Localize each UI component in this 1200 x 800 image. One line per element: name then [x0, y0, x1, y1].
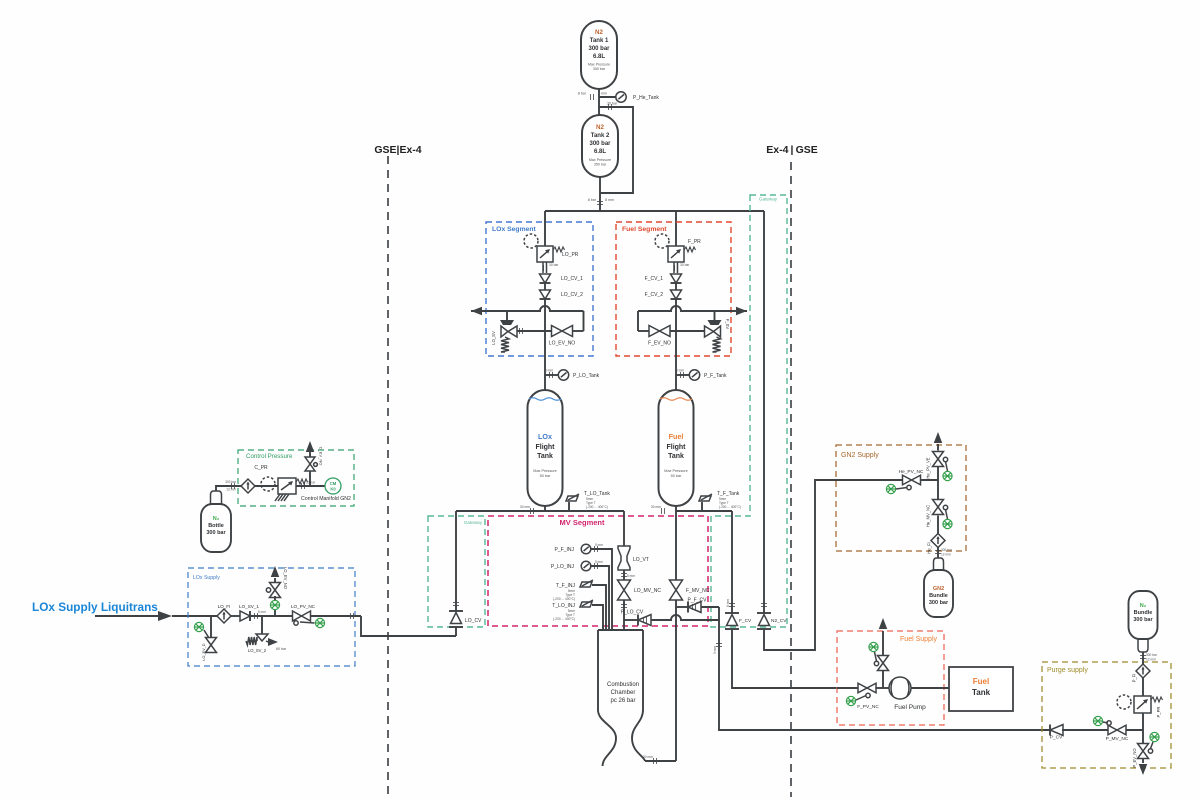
svg-text:N2: N2 — [596, 124, 604, 131]
svg-text:Fuel Supply: Fuel Supply — [900, 636, 937, 643]
svg-text:F_PV_NC: F_PV_NC — [857, 704, 879, 710]
svg-text:Tank: Tank — [668, 453, 684, 460]
svg-text:LO_SV_1: LO_SV_1 — [239, 604, 259, 609]
svg-text:50 bar: 50 bar — [540, 474, 552, 478]
svg-text:350 bar: 350 bar — [594, 163, 607, 167]
svg-text:C_PR: C_PR — [254, 465, 268, 471]
svg-text:LO_PV_NC: LO_PV_NC — [291, 604, 316, 609]
svg-text:LO_EV_D: LO_EV_D — [202, 643, 206, 660]
svg-text:LO_FI: LO_FI — [218, 604, 231, 609]
svg-text:He_FI: He_FI — [927, 542, 932, 553]
svg-text:8 bar: 8 bar — [588, 198, 597, 202]
svg-text:P_EV_NO: P_EV_NO — [1132, 748, 1137, 768]
svg-text:30 bar: 30 bar — [549, 263, 559, 267]
svg-text:LO_SV_2: LO_SV_2 — [248, 648, 267, 653]
svg-text:30 mm: 30 mm — [651, 505, 661, 509]
svg-text:Fuel Segment: Fuel Segment — [622, 226, 667, 233]
svg-text:30 bar: 30 bar — [607, 102, 618, 106]
svg-text:C_EV_NO: C_EV_NO — [319, 447, 324, 466]
svg-text:CM: CM — [330, 481, 337, 486]
svg-text:Tank 1: Tank 1 — [590, 38, 609, 44]
svg-text:He_MV_NC: He_MV_NC — [926, 505, 931, 527]
svg-text:P_FI: P_FI — [1132, 674, 1137, 683]
svg-text:Max Pressure: Max Pressure — [588, 63, 610, 67]
svg-text:LO_SV: LO_SV — [491, 331, 496, 345]
svg-text:50 bar: 50 bar — [671, 474, 683, 478]
svg-text:LOx Supply: LOx Supply — [193, 575, 220, 581]
svg-text:60 bar: 60 bar — [276, 647, 287, 651]
svg-text:LO_EV_NO: LO_EV_NO — [283, 567, 288, 590]
svg-text:N₂: N₂ — [1140, 603, 1147, 609]
svg-text:Purge supply: Purge supply — [1047, 667, 1088, 674]
svg-text:P_LO_Tank: P_LO_Tank — [573, 373, 600, 379]
svg-text:30 bar: 30 bar — [306, 481, 316, 485]
svg-text:Control Pressure: Control Pressure — [246, 453, 293, 460]
svg-text:(-200 ... 400°C): (-200 ... 400°C) — [553, 597, 575, 601]
svg-text:F_EV_NO: F_EV_NO — [648, 341, 671, 347]
svg-text:6.8L: 6.8L — [593, 54, 605, 60]
svg-text:MV Segment: MV Segment — [559, 518, 605, 527]
svg-text:Control Manifold GN2: Control Manifold GN2 — [301, 496, 351, 502]
svg-text:Chamber: Chamber — [611, 690, 636, 696]
svg-text:6 mm: 6 mm — [726, 599, 730, 607]
svg-text:(-200 ... 400°C): (-200 ... 400°C) — [586, 505, 608, 509]
svg-text:GN2 Supply: GN2 Supply — [841, 452, 879, 459]
svg-text:P_CV: P_CV — [1050, 735, 1063, 741]
svg-text:LOx Segment: LOx Segment — [492, 226, 537, 233]
svg-text:Combustion: Combustion — [607, 682, 639, 688]
svg-text:12 mm: 12 mm — [226, 488, 236, 492]
svg-text:P_LO_CV: P_LO_CV — [621, 610, 644, 616]
svg-text:8 mm: 8 mm — [676, 369, 684, 373]
svg-text:Fuel Pump: Fuel Pump — [894, 704, 926, 711]
svg-text:12 mm: 12 mm — [941, 553, 951, 557]
svg-text:Max Pressure: Max Pressure — [589, 158, 611, 162]
svg-text:K0: K0 — [330, 487, 336, 492]
svg-text:LOx: LOx — [538, 432, 552, 441]
svg-text:p​c 26 bar: p​c 26 bar — [610, 698, 635, 704]
svg-text:P_He_Tank: P_He_Tank — [633, 95, 659, 101]
svg-text:GSE|Ex-4: GSE|Ex-4 — [374, 144, 421, 156]
svg-text:P_F_Tank: P_F_Tank — [704, 373, 727, 379]
svg-text:300 bar: 300 bar — [1133, 617, 1153, 623]
svg-text:Fuel: Fuel — [973, 677, 989, 686]
svg-text:6.8L: 6.8L — [594, 149, 606, 155]
svg-text:Fuel: Fuel — [669, 432, 684, 441]
svg-text:5 mm: 5 mm — [627, 574, 635, 578]
svg-text:LO_CV_2: LO_CV_2 — [561, 292, 583, 298]
svg-text:P_PR: P_PR — [1156, 707, 1161, 718]
svg-text:(-200 ... 400°C): (-200 ... 400°C) — [719, 505, 741, 509]
svg-text:5 mm: 5 mm — [595, 543, 603, 547]
svg-text:LO_PR: LO_PR — [562, 252, 579, 258]
svg-text:Gateway: Gateway — [464, 520, 483, 525]
svg-text:8 mm: 8 mm — [605, 198, 614, 202]
svg-text:300 bar: 300 bar — [929, 600, 949, 606]
svg-text:P_F_INJ: P_F_INJ — [555, 547, 575, 553]
svg-text:Gateway: Gateway — [759, 197, 778, 202]
svg-text:Tank: Tank — [972, 688, 991, 697]
svg-text:Bundle: Bundle — [1134, 610, 1153, 616]
svg-text:Max Pressure: Max Pressure — [533, 469, 556, 473]
svg-text:He_PV_NC: He_PV_NC — [899, 469, 924, 475]
svg-text:LO_MV_NC: LO_MV_NC — [634, 588, 661, 594]
svg-text:300 bar: 300 bar — [588, 46, 610, 52]
svg-text:N2: N2 — [595, 29, 603, 36]
svg-text:350 bar: 350 bar — [593, 67, 606, 71]
svg-text:30 bar: 30 bar — [680, 263, 690, 267]
svg-text:He_PV_VE: He_PV_VE — [926, 457, 931, 478]
svg-text:N2_CV: N2_CV — [771, 618, 787, 624]
svg-text:5 mm: 5 mm — [258, 610, 266, 614]
svg-text:Tank: Tank — [537, 453, 553, 460]
svg-text:8 mm: 8 mm — [545, 369, 553, 373]
svg-text:F_CV: F_CV — [739, 618, 752, 624]
svg-text:12 mm: 12 mm — [1146, 658, 1156, 662]
svg-text:300 bar: 300 bar — [589, 141, 611, 147]
svg-text:3 mm: 3 mm — [713, 646, 717, 654]
svg-text:F_CV_2: F_CV_2 — [645, 292, 664, 298]
svg-text:Max Pressure: Max Pressure — [664, 469, 687, 473]
svg-text:5 mm: 5 mm — [595, 560, 603, 564]
svg-text:Bottle: Bottle — [208, 523, 224, 529]
svg-text:P_LO_INJ: P_LO_INJ — [551, 564, 575, 570]
svg-text:Bundle: Bundle — [929, 593, 948, 599]
svg-text:(-200 ... 400°C): (-200 ... 400°C) — [553, 617, 575, 621]
svg-text:300 bar: 300 bar — [941, 548, 953, 552]
svg-text:Tank 2: Tank 2 — [591, 133, 610, 139]
svg-text:LO_CV_1: LO_CV_1 — [561, 276, 583, 282]
svg-text:300 bar: 300 bar — [225, 480, 237, 484]
svg-text:Flight: Flight — [535, 444, 555, 451]
svg-text:8 mm: 8 mm — [598, 92, 607, 96]
svg-text:F_CV_1: F_CV_1 — [645, 276, 664, 282]
svg-text:Ex-4 | GSE: Ex-4 | GSE — [766, 144, 818, 156]
svg-text:GN2: GN2 — [933, 586, 944, 592]
svg-text:300 bar: 300 bar — [1146, 653, 1158, 657]
svg-text:LOx Supply Liquitrans: LOx Supply Liquitrans — [32, 600, 158, 614]
svg-text:N₂: N₂ — [213, 516, 220, 522]
svg-text:F_MV_NC: F_MV_NC — [686, 588, 710, 594]
svg-text:LO_VT: LO_VT — [633, 557, 649, 563]
svg-text:8 bar: 8 bar — [578, 92, 587, 96]
svg-text:300 bar: 300 bar — [206, 530, 226, 536]
svg-text:30 mm: 30 mm — [520, 505, 530, 509]
svg-text:LO_CV: LO_CV — [465, 618, 482, 624]
svg-text:Flight: Flight — [666, 444, 686, 451]
svg-text:F_PR: F_PR — [688, 239, 701, 245]
svg-text:F_SV: F_SV — [725, 319, 730, 330]
svg-text:LO_EV_NO: LO_EV_NO — [549, 341, 576, 347]
svg-text:P_MV_NC: P_MV_NC — [1106, 736, 1129, 742]
